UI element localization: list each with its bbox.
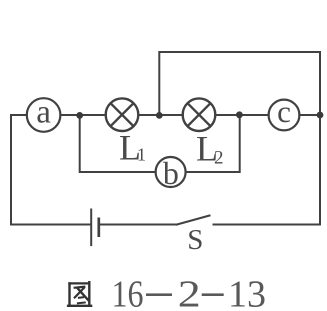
svg-text:13: 13 <box>228 273 266 311</box>
svg-text:c: c <box>277 94 291 129</box>
svg-text:2: 2 <box>178 273 201 311</box>
svg-text:b: b <box>163 155 179 191</box>
svg-text:2: 2 <box>214 148 224 169</box>
svg-text:16: 16 <box>112 273 144 311</box>
svg-text:1: 1 <box>137 145 146 165</box>
svg-text:a: a <box>36 95 51 131</box>
svg-text:S: S <box>187 224 203 256</box>
